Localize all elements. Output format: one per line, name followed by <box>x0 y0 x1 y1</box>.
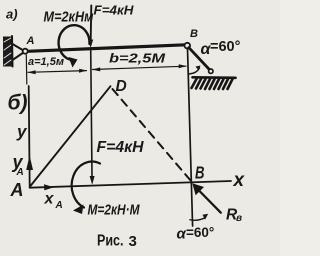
svg-text:a=1,5м: a=1,5м <box>28 56 64 68</box>
svg-text:а): а) <box>6 7 18 22</box>
svg-text:D: D <box>116 78 127 95</box>
svg-text:y: y <box>16 122 28 141</box>
svg-text:б): б) <box>8 92 28 115</box>
svg-text:α: α <box>177 226 187 243</box>
svg-text:B: B <box>195 163 205 183</box>
svg-text:x: x <box>44 191 55 208</box>
svg-text:b=2,5М: b=2,5М <box>109 51 166 66</box>
svg-text:=60°: =60° <box>186 225 214 240</box>
svg-text:A: A <box>16 167 24 178</box>
svg-text:3: 3 <box>129 233 137 250</box>
svg-text:=60°: =60° <box>210 39 241 55</box>
svg-text:в: в <box>236 213 242 224</box>
svg-text:x: x <box>233 170 246 191</box>
svg-text:F=4кН: F=4кН <box>94 3 135 18</box>
svg-text:A: A <box>55 200 63 211</box>
svg-text:А: А <box>10 180 24 200</box>
svg-text:М=2кНм: М=2кНм <box>44 9 94 26</box>
svg-text:М=2кН·М: М=2кН·М <box>88 202 140 219</box>
svg-text:Рис.: Рис. <box>97 233 124 250</box>
svg-text:F=4кН: F=4кН <box>97 139 144 156</box>
svg-text:А: А <box>26 35 35 47</box>
svg-text:В: В <box>190 28 198 40</box>
